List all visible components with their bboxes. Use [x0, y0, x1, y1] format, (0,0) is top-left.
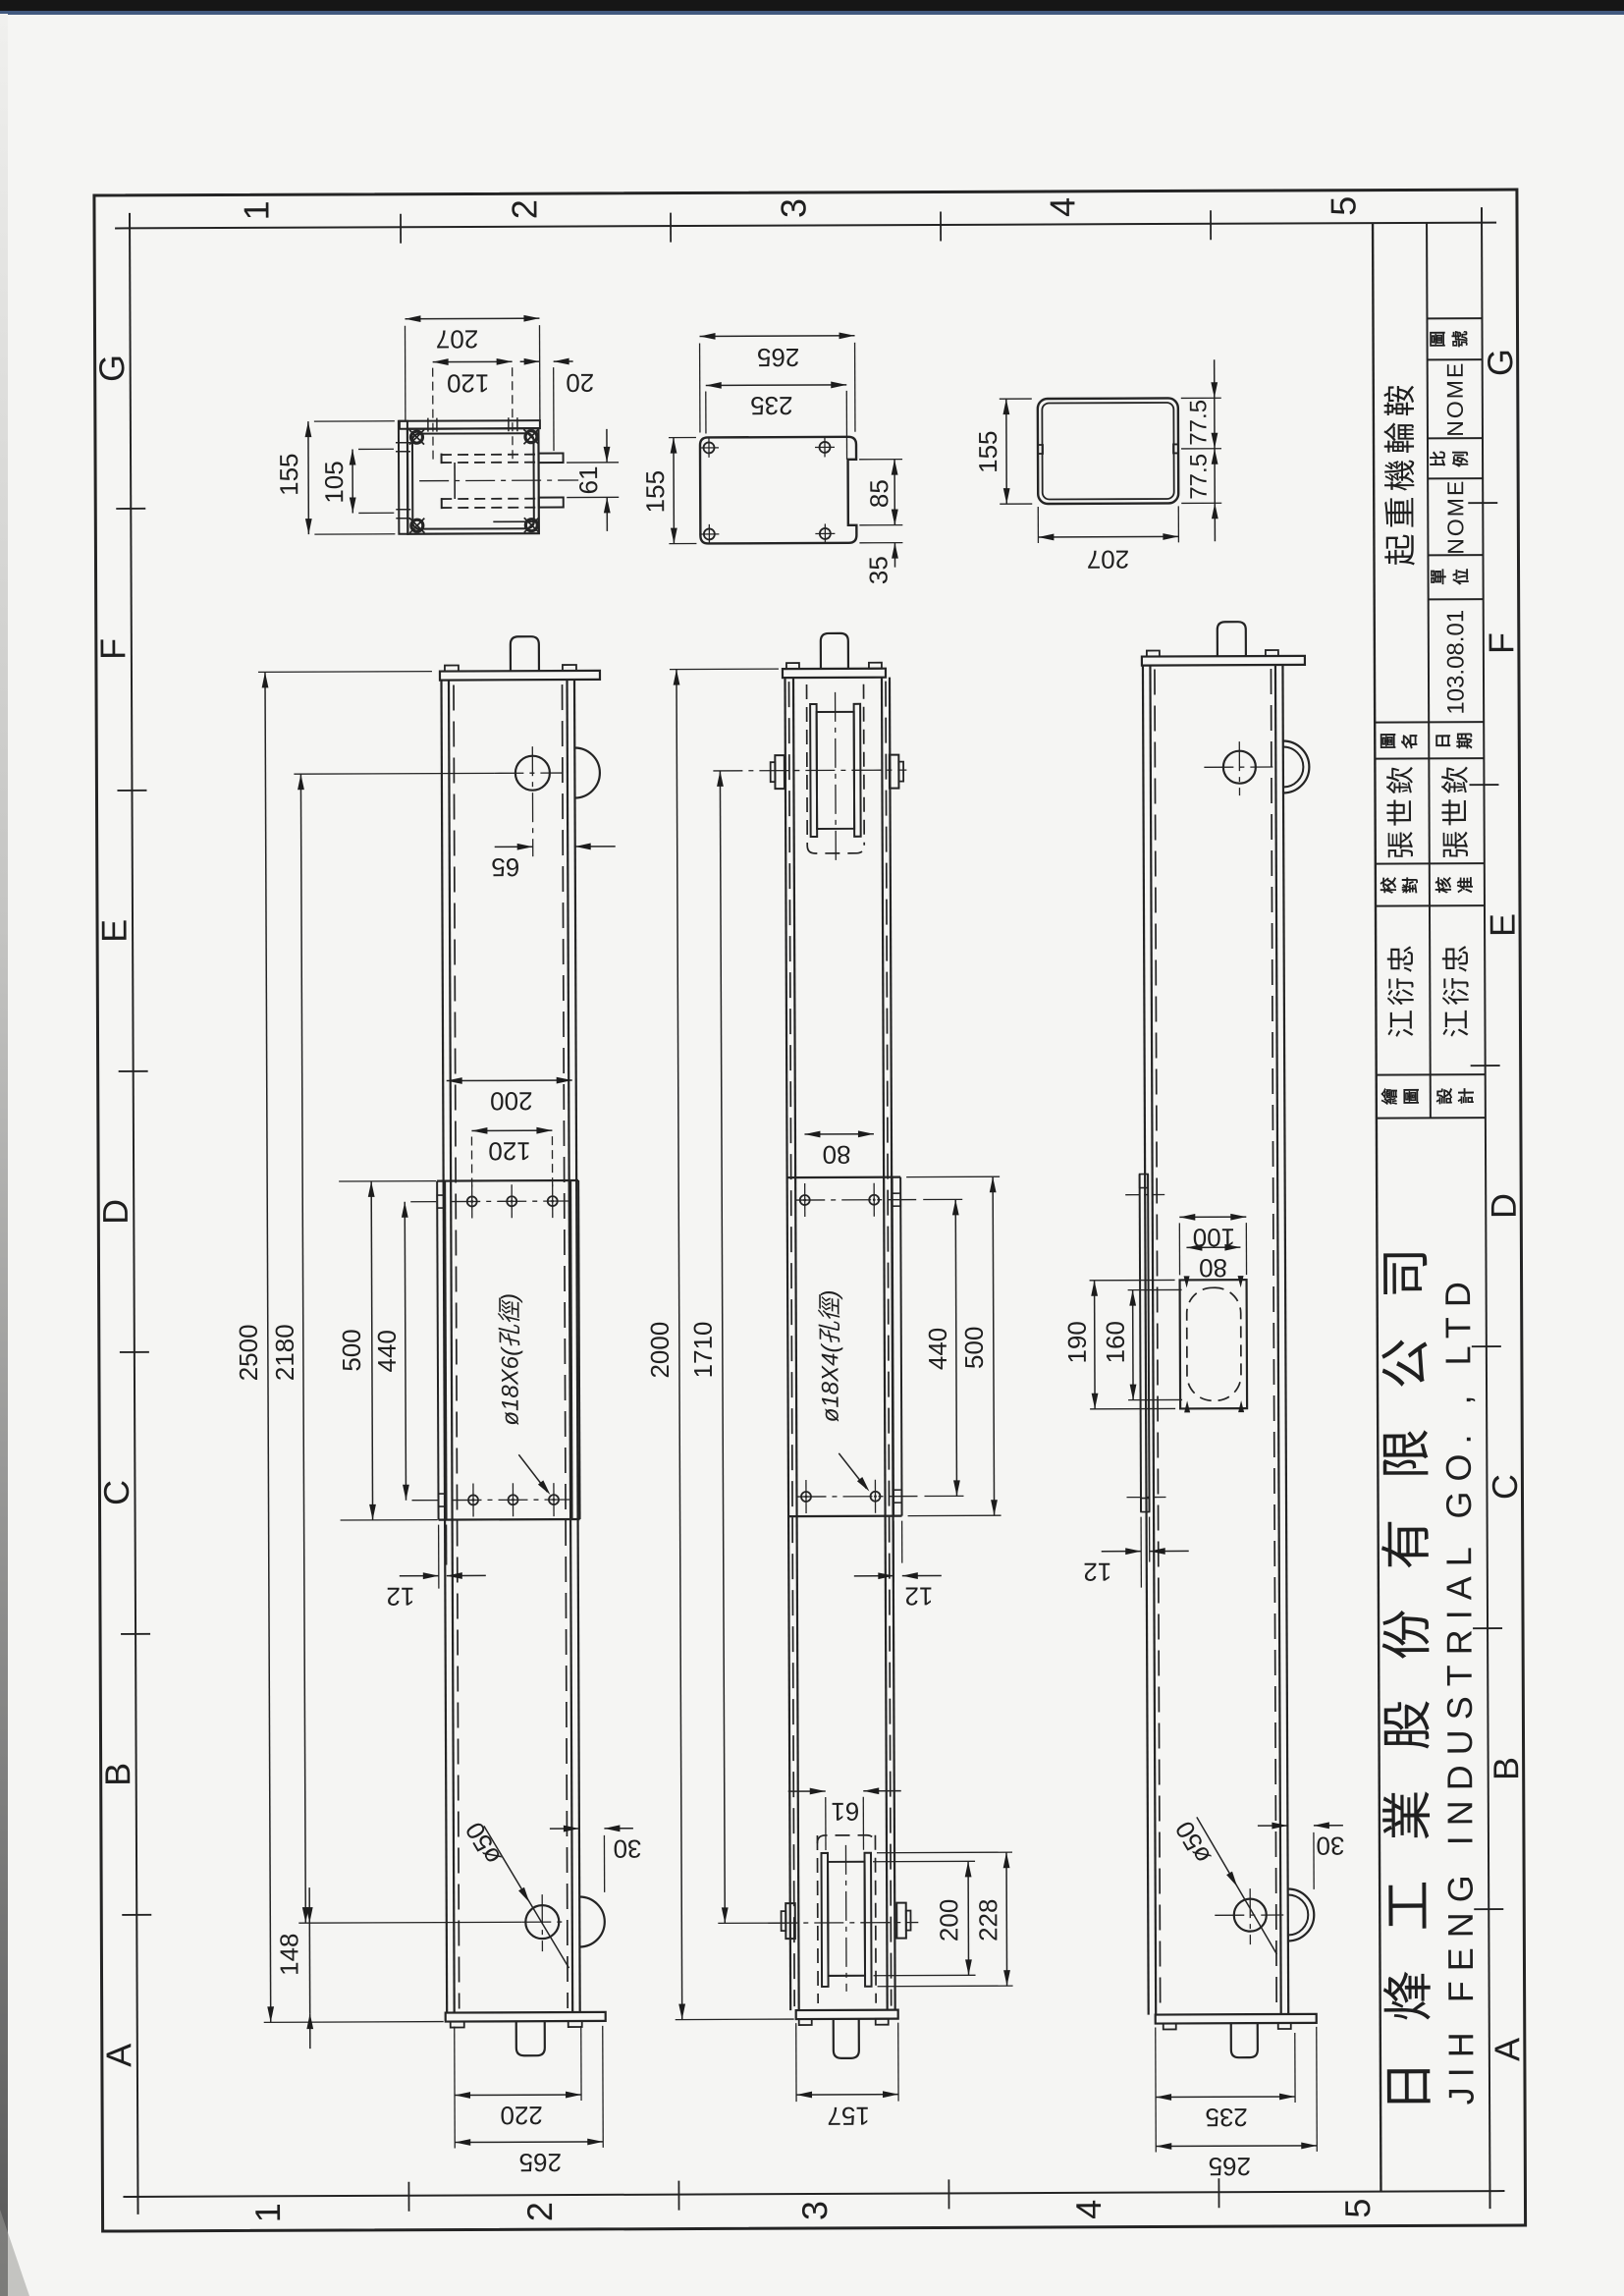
beam2 left hidden line — [789, 682, 795, 2006]
svg-text:圖: 圖 — [1380, 733, 1398, 749]
svg-text:20: 20 — [566, 368, 594, 398]
beam2 bottom sheave body — [828, 1862, 865, 1976]
beam2 dim 200 extension lines — [873, 1860, 975, 1862]
view B dim 35 extension line — [859, 542, 902, 544]
beam3 dia50 leader line — [1197, 1817, 1277, 1954]
svg-text:235: 235 — [750, 391, 793, 420]
svg-text:B: B — [1486, 1757, 1526, 1780]
beam1 dim 65 — [495, 846, 533, 847]
svg-text:12: 12 — [904, 1581, 933, 1611]
svg-text:12: 12 — [1083, 1558, 1111, 1587]
svg-text:F: F — [92, 638, 133, 660]
beam2 top axle nubs — [775, 755, 785, 789]
svg-text:5: 5 — [1323, 196, 1363, 216]
svg-text:12: 12 — [386, 1582, 414, 1612]
svg-text:起重機輪鞍: 起重機輪鞍 — [1381, 379, 1419, 566]
title block small rows (right column) — [1427, 317, 1482, 319]
beam1 bolt holes bottom row — [468, 1495, 478, 1504]
svg-text:207: 207 — [1087, 545, 1130, 574]
beam3 top cap plate — [1142, 656, 1305, 666]
zone ticks bottom border — [407, 2182, 409, 2212]
beam3 top cap bolt nubs — [1147, 651, 1160, 657]
beam1 bottom wheel arc — [579, 1896, 605, 1946]
svg-text:200: 200 — [934, 1899, 963, 1942]
beam2 top sheave body — [817, 712, 854, 829]
svg-text:1710: 1710 — [688, 1321, 718, 1378]
view A dim 207 — [405, 317, 539, 320]
svg-text:2500: 2500 — [234, 1324, 263, 1381]
view C left notch — [1038, 445, 1043, 454]
beam2 dim 228 extension lines — [877, 1851, 1012, 1854]
beam2 bottom axle nub caps — [782, 1911, 786, 1931]
view B dim 155 extension lines — [669, 436, 696, 438]
view A main plate outline — [407, 428, 539, 534]
svg-text:2180: 2180 — [270, 1324, 299, 1381]
beam3 dim 190 extension lines — [1090, 1279, 1175, 1281]
beam2 dim 228 — [1005, 1852, 1008, 1986]
beam3 dim 80 — [1186, 1246, 1240, 1248]
beam1 dim 440 extension lines — [410, 1201, 436, 1203]
beam1 saddle plate right edge — [570, 1180, 571, 1519]
beam2 dim 440 extension dashes — [923, 1198, 962, 1200]
beam3 dim 30 extension lines — [1286, 1832, 1288, 1866]
beam1 left hidden line — [454, 685, 460, 2009]
view B plate outline with notch — [700, 437, 856, 544]
view A dim 105 extension lines — [358, 448, 394, 450]
beam2 right edge lines — [882, 678, 888, 2010]
beam2 dim 12 extension lines — [893, 1521, 894, 1583]
svg-text:A: A — [1487, 2038, 1527, 2061]
beam3 hole corner arrows — [1184, 1276, 1190, 1287]
beam2 top vertical center line — [835, 692, 838, 861]
svg-text:77.5: 77.5 — [1185, 400, 1212, 446]
beam1 dim 220 — [455, 2094, 581, 2097]
beam2 dim 2000 extension lines — [670, 668, 779, 670]
beam3 bottom hole circle — [1234, 1899, 1267, 1932]
svg-text:61: 61 — [573, 465, 603, 494]
view C tube inner contour — [1042, 403, 1173, 500]
view C dim 77.5 lower — [1214, 503, 1216, 541]
svg-text:JIH FENG INDUSTRIAL GO. , LTD: JIH FENG INDUSTRIAL GO. , LTD — [1437, 1272, 1482, 2105]
beam2 dim 61 extension lines — [825, 1797, 827, 1850]
svg-text:120: 120 — [488, 1136, 531, 1166]
view C dim 207 — [1038, 535, 1178, 538]
svg-text:228: 228 — [973, 1898, 1002, 1941]
drawing frame inner border bottom — [123, 2191, 1504, 2197]
view A inner edge mark — [493, 520, 535, 522]
svg-text:3: 3 — [773, 198, 813, 218]
beam2 top cap bolt nubs — [786, 663, 799, 669]
beam2 dim 2000 — [677, 670, 682, 2020]
svg-text:比: 比 — [1429, 451, 1448, 467]
svg-text:D: D — [1484, 1193, 1524, 1219]
view C tube outer contour — [1038, 398, 1178, 504]
view C dim 155 — [1005, 399, 1007, 504]
beam2 top axle center line — [713, 769, 906, 772]
svg-text:157: 157 — [827, 2102, 870, 2131]
svg-text:NOME: NOME — [1442, 479, 1468, 555]
view B dim 35 — [893, 543, 895, 568]
view B dim 85 — [893, 460, 895, 525]
view A dim 207 extension lines — [404, 326, 406, 421]
scanner left shadow band — [0, 0, 1, 1]
beam1 bolt holes top row — [467, 1196, 477, 1206]
svg-text:F: F — [1481, 632, 1521, 654]
beam1 dim 2500 — [265, 672, 271, 2022]
view B dim 85 extension lines — [859, 459, 902, 461]
view B dim 265 extension lines — [699, 343, 701, 432]
beam1 dim 148 — [308, 1887, 310, 1923]
svg-text:265: 265 — [757, 343, 800, 372]
beam1 bottom stub — [516, 2021, 545, 2055]
svg-text:G: G — [91, 355, 132, 382]
beam2 bolt row center lines — [795, 1199, 916, 1202]
beam2 dim 1710 extension line bottom — [718, 1922, 785, 1924]
svg-text:207: 207 — [436, 324, 479, 354]
title block left boundary line — [1373, 223, 1380, 2191]
svg-text:C: C — [96, 1480, 136, 1505]
view A dim 105 — [352, 449, 353, 513]
svg-text:繪: 繪 — [1380, 1087, 1399, 1105]
beam2 bottom cap plate — [796, 2010, 898, 2019]
view A dim 120 — [433, 360, 513, 362]
view A dim 20 extension line — [553, 367, 555, 451]
beam1 bottom hole center lines — [521, 1921, 568, 1923]
beam1 dim 30 extension lines — [578, 1835, 580, 1869]
svg-text:77.5: 77.5 — [1186, 454, 1213, 500]
scanner black top edge — [0, 0, 1624, 11]
svg-text:A: A — [98, 2044, 138, 2067]
beam1 saddle plate left tabs — [437, 1195, 445, 1208]
beam1 top wheel arc — [574, 747, 600, 797]
view A dim 61 — [606, 429, 608, 463]
beam2 saddle plate right tabs — [893, 1193, 901, 1206]
beam3 side bar plate — [1140, 1175, 1141, 1512]
beam1 bottom cap bolt nubs — [451, 2021, 464, 2027]
beam1 dim 12 — [400, 1575, 439, 1577]
view C right notch — [1173, 444, 1178, 453]
beam1 top cap plate — [440, 671, 600, 681]
title block column divider — [1427, 223, 1431, 1118]
svg-text:80: 80 — [1199, 1253, 1227, 1283]
svg-text:500: 500 — [337, 1329, 366, 1372]
svg-text:號: 號 — [1451, 331, 1470, 348]
svg-text:ø18X6(孔徑): ø18X6(孔徑) — [497, 1293, 524, 1426]
beam3 left edge lines — [1143, 666, 1149, 2015]
view A dim 61 extension lines — [567, 462, 619, 464]
beam2 dim 1710 — [720, 771, 725, 1923]
view A hidden rail lines — [441, 454, 540, 456]
beam2 top axle nub caps — [771, 762, 776, 782]
beam3 bottom cap bolt nubs — [1164, 2023, 1176, 2029]
svg-text:148: 148 — [274, 1933, 303, 1976]
svg-text:5: 5 — [1337, 2199, 1378, 2218]
view C dim 77.5 extension lines — [1181, 397, 1221, 399]
view B corner bolts — [703, 442, 714, 453]
svg-text:61: 61 — [831, 1797, 859, 1827]
drawing frame inner border right — [1482, 207, 1490, 2209]
svg-text:G: G — [1480, 349, 1520, 376]
beam2 dim 200 — [967, 1861, 969, 1975]
svg-text:對: 對 — [1400, 877, 1420, 894]
svg-text:單: 單 — [1430, 569, 1448, 585]
svg-text:220: 220 — [500, 2101, 543, 2130]
svg-text:2000: 2000 — [645, 1322, 675, 1379]
beam1 top hole center lines — [494, 772, 563, 774]
beam2 dim 12 — [854, 1575, 893, 1577]
scanner corner shadow — [0, 2210, 29, 2296]
beam3 dim 30 — [1258, 1825, 1287, 1827]
beam2 dim 157 extension lines — [795, 2023, 797, 2102]
beam1 dim 30 — [550, 1828, 579, 1830]
beam2 dim 500 — [993, 1176, 994, 1515]
beam3 side bar tabs — [1140, 1175, 1149, 1188]
svg-text:E: E — [94, 919, 135, 943]
beam1 saddle plate outline — [437, 1179, 578, 1182]
drawing frame outer border — [94, 190, 1526, 2231]
svg-text:4: 4 — [1042, 197, 1082, 217]
beam1 dim 12 extension lines — [438, 1525, 440, 1589]
view C dim 77.5 upper — [1214, 359, 1216, 398]
beam3 dim 265 extension line — [1316, 2027, 1319, 2152]
view A dim 20 — [520, 360, 540, 362]
beam1 dim 500 — [371, 1181, 372, 1520]
beam2 top pulley hidden box — [806, 684, 809, 846]
beam3 hole dashed stadium — [1187, 1287, 1241, 1400]
svg-text:張世欽: 張世欽 — [1439, 762, 1472, 859]
svg-text:30: 30 — [613, 1834, 641, 1864]
view A dim 155 — [307, 421, 309, 534]
beam3 left hidden line — [1155, 670, 1161, 2011]
beam1 top stub — [511, 636, 539, 671]
svg-text:ø18X4(孔徑): ø18X4(孔徑) — [817, 1290, 844, 1423]
beam3 dim 265 — [1156, 2145, 1317, 2148]
beam2 bottom axle nubs — [785, 1903, 795, 1939]
beam3 hole frame rect — [1180, 1280, 1248, 1408]
svg-text:期: 期 — [1456, 733, 1475, 749]
beam1 dim 2180 — [300, 774, 305, 1923]
view A main plate inner contour — [412, 433, 534, 529]
svg-text:2: 2 — [504, 199, 544, 219]
beam1 dim 120 — [471, 1129, 552, 1131]
view A corner bolts — [410, 431, 422, 443]
beam2 bottom pulley hidden box — [816, 1835, 819, 2003]
svg-text:2: 2 — [519, 2202, 560, 2221]
beam2 top sheave side bars — [810, 704, 817, 837]
zone ticks right border — [1468, 502, 1497, 504]
beam3 side bar center marks — [1125, 1193, 1164, 1195]
beam2 bottom stub — [834, 2019, 859, 2058]
beam3 dim 100 — [1179, 1216, 1246, 1218]
beam2 top stub — [821, 633, 848, 669]
beam2 hole label leader — [839, 1453, 866, 1489]
beam1 top cap bolt nubs — [445, 666, 459, 672]
beam2 dim 80 top — [804, 1133, 873, 1135]
view A rail center bar — [454, 463, 456, 499]
svg-text:440: 440 — [372, 1330, 402, 1373]
svg-text:江衍忠: 江衍忠 — [1385, 941, 1418, 1038]
view C dim 155 extension lines — [1000, 398, 1032, 400]
beam1 right hidden line — [563, 684, 568, 2008]
drawing frame inner border top — [115, 223, 1496, 229]
svg-text:160: 160 — [1101, 1321, 1130, 1364]
beam2 dim 500 extension lines — [906, 1175, 1000, 1177]
beam1 hole label leader — [518, 1454, 547, 1492]
beam1 bolt row center lines — [451, 1200, 570, 1203]
beam1 top hole circle dia50 — [515, 756, 550, 791]
beam3 dim 235 extension lines — [1155, 2028, 1158, 2153]
beam3 right edge lines — [1275, 665, 1281, 2014]
view A rail end caps — [441, 454, 443, 464]
svg-text:4: 4 — [1068, 2200, 1109, 2219]
svg-text:155: 155 — [274, 453, 303, 496]
svg-text:265: 265 — [519, 2148, 563, 2177]
svg-text:校: 校 — [1379, 876, 1398, 894]
svg-text:日: 日 — [1435, 733, 1453, 749]
svg-text:1: 1 — [236, 200, 276, 220]
svg-text:計: 計 — [1456, 1088, 1476, 1105]
svg-text:30: 30 — [1316, 1831, 1344, 1861]
svg-text:265: 265 — [1209, 2152, 1252, 2181]
beam2 bottom vertical center line — [844, 1845, 847, 1992]
svg-text:35: 35 — [863, 556, 893, 584]
svg-text:設: 設 — [1435, 1087, 1454, 1105]
beam1 bottom hole circle dia50 — [525, 1905, 559, 1939]
beam3 dim 100 extension lines — [1178, 1223, 1180, 1275]
svg-text:105: 105 — [319, 461, 349, 504]
view A left flange bar — [399, 421, 407, 534]
svg-text:155: 155 — [973, 430, 1002, 473]
beam1 dim 265 — [455, 2141, 603, 2144]
svg-text:例: 例 — [1451, 451, 1471, 467]
beam3 right hidden line — [1271, 669, 1276, 2010]
beam3 top wheel arcs — [1283, 740, 1310, 793]
beam1 right edge lines — [567, 680, 572, 2012]
beam3 dim 12 — [1102, 1551, 1141, 1553]
svg-text:85: 85 — [864, 479, 893, 508]
view B dim 155 — [673, 438, 675, 544]
view B dim 265 — [700, 335, 855, 338]
svg-text:NOME: NOME — [1442, 361, 1468, 437]
beam2 bottom sheave side bars — [822, 1853, 829, 1987]
beam1 bottom cap plate — [446, 2012, 606, 2022]
view C dim 207 extension lines — [1037, 507, 1039, 543]
svg-text:B: B — [97, 1763, 137, 1786]
beam3 bottom stub — [1231, 2023, 1258, 2057]
beam3 dim 12 extension lines — [1140, 1517, 1142, 1588]
beam2 dim 157 — [796, 2094, 898, 2096]
beam3 dim 160 — [1132, 1290, 1134, 1400]
zone ticks left border — [116, 508, 145, 510]
drawing frame inner border left — [130, 213, 138, 2214]
beam1 left edge lines — [442, 681, 448, 2013]
beam2 saddle plate right edge — [893, 1177, 893, 1516]
beam3 top stub — [1218, 622, 1246, 656]
view A dim 155 extension lines — [314, 420, 395, 422]
beam2 dim 61 — [788, 1790, 826, 1792]
svg-text:C: C — [1485, 1474, 1525, 1500]
beam2 saddle plate outline — [787, 1176, 900, 1179]
beam1 dim 440 — [405, 1202, 406, 1501]
beam3 bottom hole center lines — [1215, 1914, 1283, 1916]
svg-text:張世欽: 張世欽 — [1384, 762, 1417, 859]
beam3 bottom wheel arcs — [1288, 1888, 1315, 1941]
beam3 top hole center lines — [1204, 766, 1272, 768]
view A center line — [419, 479, 578, 482]
beam1 saddle plate left edge — [437, 1181, 438, 1520]
svg-text:江衍忠: 江衍忠 — [1440, 941, 1473, 1038]
svg-text:日烽工業股份有限公司: 日烽工業股份有限公司 — [1378, 1208, 1438, 2111]
beam1 dim 220 extension lines — [454, 2027, 457, 2149]
svg-text:E: E — [1483, 913, 1523, 937]
svg-text:位: 位 — [1451, 569, 1471, 585]
svg-text:核: 核 — [1434, 877, 1453, 894]
view A dim 120 extension lines — [432, 368, 434, 464]
svg-text:65: 65 — [491, 852, 519, 882]
beam3 bottom cap plate — [1156, 2014, 1317, 2024]
beam1 dim 500 extension lines — [339, 1180, 436, 1182]
svg-text:80: 80 — [823, 1140, 851, 1170]
beam3 dim 235 — [1156, 2096, 1295, 2099]
view A protruding pins — [539, 454, 564, 464]
beam3 dim 160 extension lines — [1128, 1288, 1182, 1290]
beam2 top cap plate — [783, 669, 886, 678]
beam3 dim 190 — [1094, 1281, 1097, 1409]
beam2 right hidden line — [886, 682, 892, 2006]
beam2 bottom axle center line — [768, 1922, 918, 1925]
view A flange notch ticks — [427, 418, 429, 432]
beam2 bolt holes — [800, 1195, 810, 1205]
svg-text:名: 名 — [1400, 733, 1420, 749]
view B dim 235 extension lines — [705, 391, 707, 433]
svg-text:1: 1 — [247, 2203, 288, 2222]
title block full rows — [1375, 721, 1484, 723]
beam3 top hole circle — [1223, 751, 1256, 784]
beam1 dim 120 extension lines — [470, 1136, 472, 1187]
svg-text:D: D — [95, 1199, 135, 1225]
svg-text:准: 准 — [1456, 877, 1475, 894]
svg-text:圖: 圖 — [1429, 331, 1447, 348]
beam1 dim 2500 extension lines — [258, 671, 432, 674]
zone ticks top border — [400, 214, 402, 244]
svg-text:190: 190 — [1062, 1321, 1092, 1364]
svg-text:200: 200 — [490, 1086, 533, 1116]
view A top flange bar — [400, 420, 540, 429]
beam2 dim 440 — [955, 1199, 956, 1496]
beam1 dim 200 — [447, 1079, 572, 1082]
svg-text:500: 500 — [959, 1327, 989, 1370]
view B dim 235 — [706, 384, 846, 387]
svg-text:103.08.01: 103.08.01 — [1442, 610, 1469, 715]
scan skew group — [90, 190, 1528, 2231]
svg-text:圖: 圖 — [1402, 1088, 1421, 1105]
svg-text:155: 155 — [640, 470, 670, 514]
svg-text:235: 235 — [1205, 2103, 1248, 2132]
beam2 left edge lines — [785, 678, 790, 2010]
svg-text:440: 440 — [923, 1328, 952, 1371]
svg-text:3: 3 — [794, 2201, 835, 2220]
svg-text:120: 120 — [447, 368, 490, 398]
beam1 dim 265 extension line — [602, 2026, 605, 2148]
beam1 dia50 leader line — [484, 1826, 569, 1968]
beam2 bottom cap bolt nubs — [799, 2019, 812, 2025]
beam1 dim 2180 extension lines — [294, 772, 494, 775]
